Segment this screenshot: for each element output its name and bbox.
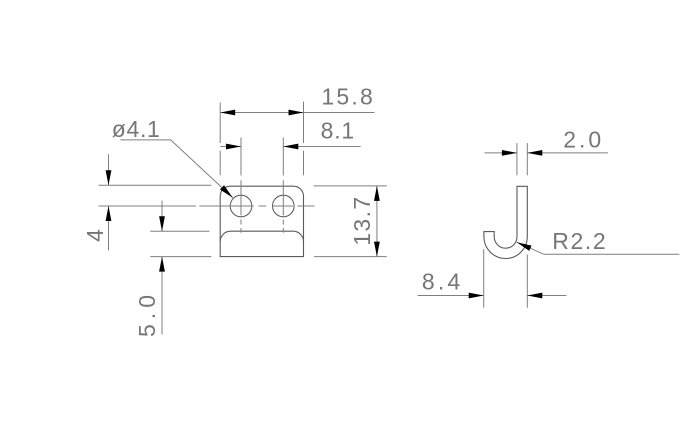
horizontal centerline <box>99 205 315 207</box>
svg-text:2.0: 2.0 <box>563 127 601 153</box>
dim 5.0 arrow down <box>159 216 165 231</box>
dim 8.4 arrow left <box>469 293 484 299</box>
dim 13.7 arrow up <box>374 186 380 201</box>
dim 4 arrow down <box>106 170 112 185</box>
vertical centerline left hole <box>240 180 242 233</box>
dim 4 extension line bottom (centerline level) <box>99 205 149 207</box>
hole left <box>230 195 252 217</box>
dim 4 dimension line lower <box>108 206 110 250</box>
dim 15.8 dimension line <box>220 112 374 114</box>
leader R2.2 line <box>517 242 680 254</box>
dim 8.1 extension line right (hole center) <box>282 138 284 176</box>
dim 4 dimension line upper <box>108 154 110 185</box>
svg-text:5.0: 5.0 <box>134 295 160 337</box>
dim 4 arrow up <box>106 206 112 221</box>
bend lip line (front view) <box>220 231 303 241</box>
dim 15.8 arrow left <box>220 110 235 116</box>
dim 2.0 dimension line right segment <box>527 152 608 154</box>
svg-text:15.8: 15.8 <box>321 83 373 109</box>
dim 15.8 arrow right <box>289 110 304 116</box>
dim 4 extension line top (top edge level) <box>99 184 212 186</box>
dim 2.0 arrow left <box>502 150 517 156</box>
vertical centerline right hole <box>282 180 284 233</box>
dim 5.0 arrow up <box>159 257 165 272</box>
dim 13.7 dimension line <box>376 186 378 257</box>
dim 8.1 extension line left (hole center) <box>240 138 242 176</box>
svg-text:ø4.1: ø4.1 <box>112 116 160 142</box>
dim 15.8 extension line right <box>303 102 305 176</box>
dim 8.1 arrow right <box>283 144 298 150</box>
dim 8.4 dimension line right segment <box>527 295 566 297</box>
dim 2.0 extension line left <box>516 143 518 175</box>
dim 5.0 dimension line lower <box>161 257 163 335</box>
dim 8.1 dimension line right segment <box>283 146 360 148</box>
dim 8.4 dimension line left segment <box>418 295 484 297</box>
J profile outline (side view) <box>484 186 527 258</box>
dim 15.8 extension line left <box>219 103 221 176</box>
leader dia 4.1 line <box>120 140 232 198</box>
dim 13.7 arrow down <box>374 242 380 257</box>
dim 13.7 extension line top <box>314 185 387 187</box>
dim 8.4 arrow right <box>527 293 542 299</box>
dim 8.1 arrow left <box>226 144 241 150</box>
dim 8.4 extension line right <box>526 255 528 308</box>
hole right <box>273 195 295 217</box>
svg-text:8.4: 8.4 <box>422 268 461 294</box>
leader R2.2 arrow <box>517 242 532 251</box>
dim 5.0 extension line top (lip line level) <box>150 230 209 232</box>
dim 8.1 dimension line left segment <box>220 146 241 148</box>
svg-text:8.1: 8.1 <box>321 118 355 144</box>
dim 2.0 dimension line left segment <box>484 152 517 154</box>
svg-text:R2.2: R2.2 <box>552 228 606 254</box>
leader dia 4.1 arrow <box>220 185 233 198</box>
dim 8.4 extension line left <box>483 249 485 308</box>
dim 5.0 extension line bottom (bottom edge level) <box>150 256 211 258</box>
svg-text:4: 4 <box>82 229 108 242</box>
front view outline <box>220 186 303 256</box>
dim 2.0 extension line right <box>526 143 528 175</box>
dim 5.0 dimension line upper <box>161 201 163 232</box>
dim 2.0 arrow right <box>527 150 542 156</box>
svg-text:13.7: 13.7 <box>349 197 375 246</box>
dim 13.7 extension line bottom <box>314 256 387 258</box>
